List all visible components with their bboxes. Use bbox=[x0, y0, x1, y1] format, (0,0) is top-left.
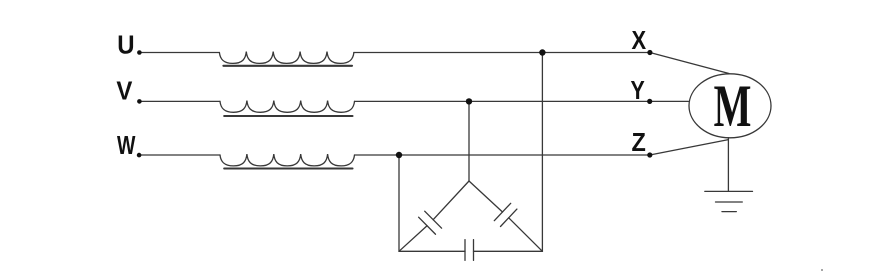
wire node J1 down to delta corner B bbox=[541, 53, 543, 252]
inductor L3 coil bbox=[220, 154, 355, 166]
wire L1 to node J1 bbox=[354, 52, 543, 54]
wire V terminal to L2 bbox=[139, 100, 220, 102]
wire delta apex to capacitor C2 bbox=[469, 181, 503, 212]
inductor L2 core bar bbox=[224, 115, 352, 117]
wire U terminal to L1 bbox=[139, 52, 219, 54]
svg-text:W: W bbox=[117, 130, 136, 159]
wire Y to motor left bbox=[650, 100, 689, 102]
capacitor C2 plate 2 bbox=[501, 209, 517, 226]
wire node J3 to Z bbox=[399, 154, 650, 156]
svg-text:Y: Y bbox=[631, 76, 646, 104]
speck artifact bbox=[821, 269, 823, 271]
wire L3 to node J3 bbox=[355, 154, 400, 156]
terminal dot W bbox=[137, 153, 142, 158]
junction J3 bbox=[396, 152, 402, 158]
wire motor to ground bbox=[727, 138, 729, 192]
capacitor C3 plate 1 bbox=[464, 240, 466, 261]
capacitor C1 plate 1 bbox=[425, 211, 442, 228]
wire capacitor C1 to corner A bbox=[399, 226, 427, 252]
wire capacitor C3 to corner B bbox=[474, 250, 543, 252]
wire X to motor top bbox=[650, 53, 729, 74]
ground bar 1 bbox=[705, 190, 753, 192]
motor M1 body bbox=[689, 74, 771, 138]
wire node J2 to Y bbox=[469, 100, 650, 102]
capacitor C3 plate 2 bbox=[473, 240, 475, 261]
svg-text:M: M bbox=[714, 74, 752, 140]
ground bar 3 bbox=[722, 211, 736, 213]
wire node J2 down to delta apex bbox=[468, 101, 470, 181]
inductor L3 core bar bbox=[224, 167, 352, 169]
inductor L1 core bar bbox=[223, 65, 352, 67]
wire node J3 down to delta corner A bbox=[398, 155, 400, 251]
terminal dot X bbox=[647, 50, 652, 55]
wire W terminal to L3 bbox=[139, 154, 220, 156]
terminal dot Z bbox=[647, 152, 652, 157]
wire Z to motor bottom bbox=[650, 140, 729, 155]
terminal dot V bbox=[137, 99, 142, 104]
wire capacitor C2 to corner B bbox=[509, 218, 543, 252]
svg-text:Z: Z bbox=[632, 129, 646, 157]
wire node J1 to X bbox=[542, 52, 650, 54]
junction J2 bbox=[466, 98, 472, 104]
wire L2 to node J2 bbox=[355, 100, 470, 102]
inductor L1 coil bbox=[219, 52, 354, 64]
terminal dot U bbox=[137, 50, 142, 55]
capacitor C2 plate 1 bbox=[494, 203, 510, 220]
inductor L2 coil bbox=[220, 101, 355, 113]
terminal dot Y bbox=[647, 99, 652, 104]
svg-text:U: U bbox=[117, 32, 134, 60]
wire delta apex to capacitor C1 bbox=[433, 181, 469, 220]
svg-text:V: V bbox=[116, 78, 132, 106]
wire corner A to capacitor C3 bbox=[399, 250, 465, 252]
capacitor C1 plate 2 bbox=[419, 217, 436, 234]
svg-text:X: X bbox=[632, 26, 647, 55]
junction J1 bbox=[539, 49, 545, 55]
ground bar 2 bbox=[716, 201, 743, 203]
